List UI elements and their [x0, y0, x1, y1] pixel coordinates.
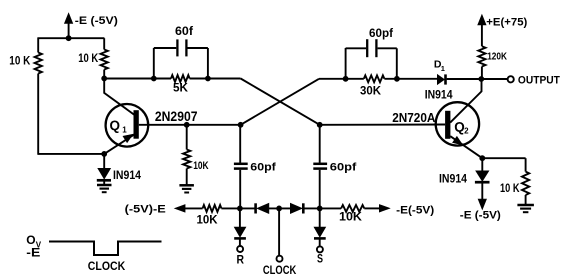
wire emitter to left rail	[38, 153, 104, 155]
svg-text:R: R	[237, 252, 245, 266]
wire left cap branch upper	[239, 125, 241, 163]
clock waveform trace	[49, 242, 162, 256]
wire top line left section	[104, 78, 171, 80]
wire left cap branch lower	[239, 170, 241, 209]
transistor Q1 base bar	[134, 110, 139, 139]
svg-text:60pf: 60pf	[330, 162, 357, 174]
svg-text:1: 1	[441, 64, 445, 73]
svg-text:1: 1	[122, 126, 127, 135]
wire 60pf loop left vertical	[345, 48, 347, 79]
resistor 10K trigger right	[341, 205, 364, 212]
wire Q2 base line	[320, 124, 445, 126]
resistor 10K trigger left	[203, 205, 222, 212]
wire top line right section	[319, 78, 364, 80]
svg-text:IN914: IN914	[113, 168, 141, 182]
resistor 10K second	[103, 38, 105, 49]
svg-text:2N720A: 2N720A	[392, 110, 436, 125]
resistor 30K	[364, 75, 385, 82]
resistor 10K to ground below 2N2907	[186, 125, 188, 150]
arrow to -E(-5V) below Q2 diode	[478, 199, 486, 210]
svg-text:10 K: 10 K	[78, 53, 99, 65]
resistor 10K right	[525, 158, 527, 171]
diode clock left (pointing left)	[254, 203, 257, 213]
wire right cap branch upper	[319, 125, 321, 163]
wire down to Q2 diode	[481, 158, 483, 171]
arrow -E(-5V) right	[379, 205, 390, 213]
wire 60f loop top	[154, 47, 177, 49]
node clock junction	[276, 206, 282, 212]
arrow (-5V)-E left	[175, 205, 186, 213]
transistor Q2 base bar	[445, 111, 450, 139]
wire down to diode	[103, 154, 105, 169]
resistor 120K	[478, 46, 485, 66]
svg-text:-E (-5V): -E (-5V)	[460, 210, 501, 222]
node 30K loop left corner	[343, 76, 349, 82]
wire Q2 emitter with arrow	[450, 136, 482, 158]
node Q2 emitter junction	[479, 155, 485, 161]
node 5K loop right corner	[205, 76, 211, 82]
ground below 10K	[179, 184, 194, 187]
node S junction	[317, 206, 323, 212]
node base junction 10K	[184, 122, 190, 128]
svg-text:S: S	[317, 254, 323, 266]
wire 60f loop right vertical	[207, 48, 209, 79]
wire to output terminal	[481, 78, 507, 80]
node cross right junction	[317, 122, 323, 128]
terminal OUTPUT circle	[508, 76, 514, 82]
diode D1	[437, 74, 444, 84]
wire top-left horizontal	[38, 37, 105, 39]
capacitor 60f plates	[176, 39, 178, 56]
wire 60pf loop right vertical	[396, 48, 398, 79]
svg-text:10 K: 10 K	[9, 55, 31, 67]
svg-text:Q: Q	[110, 118, 121, 133]
svg-text:60pf: 60pf	[369, 28, 393, 40]
capacitor 60pf top plates	[366, 39, 368, 57]
svg-text:CLOCK: CLOCK	[88, 259, 126, 273]
svg-text:IN914: IN914	[439, 171, 467, 185]
svg-text:IN914: IN914	[425, 87, 453, 101]
wire Q1 base line	[139, 124, 241, 126]
wire 60pf loop top	[346, 47, 367, 49]
svg-text:2: 2	[464, 127, 469, 136]
svg-text:60pf: 60pf	[250, 162, 276, 174]
wire cross diagonal B (right top to left base)	[241, 79, 319, 125]
svg-text:-E(-5V): -E(-5V)	[396, 204, 434, 216]
svg-text:10K: 10K	[197, 213, 218, 227]
diode S input	[314, 227, 326, 237]
svg-text:5K: 5K	[173, 82, 189, 94]
svg-text:2N2907: 2N2907	[155, 109, 198, 124]
svg-text:10K: 10K	[193, 160, 208, 172]
node cross left junction	[238, 122, 244, 128]
diode 1N914 Q1 emitter	[98, 168, 111, 179]
node output junction	[478, 76, 484, 82]
node R junction	[237, 206, 243, 212]
node Q1 emitter junction	[101, 151, 107, 157]
wire R branch down	[239, 208, 241, 227]
wire CLOCK branch down	[278, 208, 280, 255]
wire Q2 collector	[450, 79, 481, 123]
svg-text:10K: 10K	[339, 211, 363, 223]
ground below right 10K	[517, 204, 534, 207]
wire cross diagonal A (left top to right base)	[241, 79, 320, 125]
node 5K loop left corner	[151, 76, 157, 82]
capacitor 60pf left plates	[234, 163, 248, 166]
wire S branch down	[319, 208, 321, 227]
svg-text:+E(+75): +E(+75)	[486, 17, 527, 29]
resistor 5K	[171, 75, 190, 82]
node collector junction Q1	[101, 76, 107, 82]
svg-text:10 K: 10 K	[500, 183, 520, 195]
svg-text:30K: 30K	[360, 84, 381, 98]
node junction at -E arrow	[66, 35, 72, 41]
svg-text:120K: 120K	[487, 51, 507, 63]
diode 1N914 Q2 emitter	[476, 171, 489, 182]
node 30K loop right corner	[394, 76, 400, 82]
wire 60f loop left vertical	[153, 48, 155, 79]
terminal R circle	[237, 246, 243, 252]
power -E(-5V) arrow (top left)	[64, 13, 72, 24]
svg-text:-E (-5V): -E (-5V)	[75, 15, 118, 27]
capacitor 60pf right plates	[313, 163, 327, 166]
svg-text:60f: 60f	[175, 26, 193, 38]
transistor Q1 circle	[106, 104, 149, 147]
terminal CLOCK circle	[277, 256, 283, 262]
svg-text:(-5V)-E: (-5V)-E	[125, 203, 166, 215]
diode clock right (pointing right)	[290, 203, 302, 213]
svg-text:O: O	[26, 233, 35, 247]
svg-text:-E: -E	[26, 247, 40, 259]
transistor Q2 circle	[436, 102, 479, 145]
svg-text:OUTPUT: OUTPUT	[518, 74, 560, 86]
ground below Q1 diode	[97, 184, 112, 187]
wire emitter junction to 10K right	[482, 157, 525, 159]
svg-text:CLOCK: CLOCK	[263, 265, 297, 277]
wire Q1 collector	[104, 78, 136, 116]
resistor R 10K left rail	[37, 38, 39, 53]
wire right cap branch lower	[319, 170, 321, 209]
terminal S circle	[317, 246, 323, 252]
wire Q1 emitter with arrow	[104, 134, 134, 154]
power +E(+75) arrow	[478, 15, 486, 26]
diode R input	[234, 227, 246, 237]
